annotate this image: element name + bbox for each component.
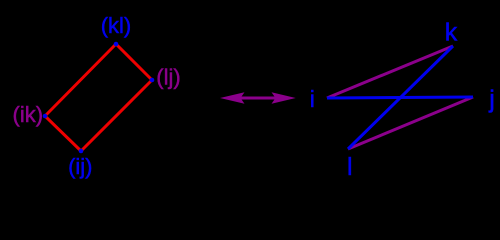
wire edge l-k blue bbox=[348, 46, 453, 149]
svg-text:(ik): (ik) bbox=[13, 102, 44, 127]
svg-text:(lj): (lj) bbox=[156, 65, 180, 90]
svg-text:j: j bbox=[488, 86, 495, 114]
svg-text:k: k bbox=[445, 19, 458, 47]
node (ij) vertex dot bbox=[79, 149, 84, 154]
double arrow left head bbox=[220, 92, 245, 103]
svg-text:l: l bbox=[347, 153, 353, 181]
node (kl) vertex dot bbox=[114, 42, 119, 47]
double arrow right head bbox=[272, 92, 296, 103]
svg-text:i: i bbox=[310, 86, 315, 112]
node (ik) vertex dot bbox=[43, 114, 48, 119]
wire edge i-k purple bbox=[327, 46, 453, 98]
svg-text:(ij): (ij) bbox=[68, 154, 92, 179]
wire edge (lj)-(ij) red bbox=[81, 80, 152, 151]
wire edge (kl)-(lj) red bbox=[116, 44, 152, 80]
node (lj) vertex dot bbox=[150, 78, 155, 83]
double arrow shaft bbox=[228, 97, 288, 100]
wire edge (ik)-(kl) red bbox=[45, 44, 116, 116]
svg-text:(kl): (kl) bbox=[101, 13, 132, 38]
wire edge i-j blue bbox=[327, 97, 473, 98]
wire edge l-j purple bbox=[348, 97, 473, 149]
wire edge (ij)-(ik) red bbox=[45, 116, 81, 151]
